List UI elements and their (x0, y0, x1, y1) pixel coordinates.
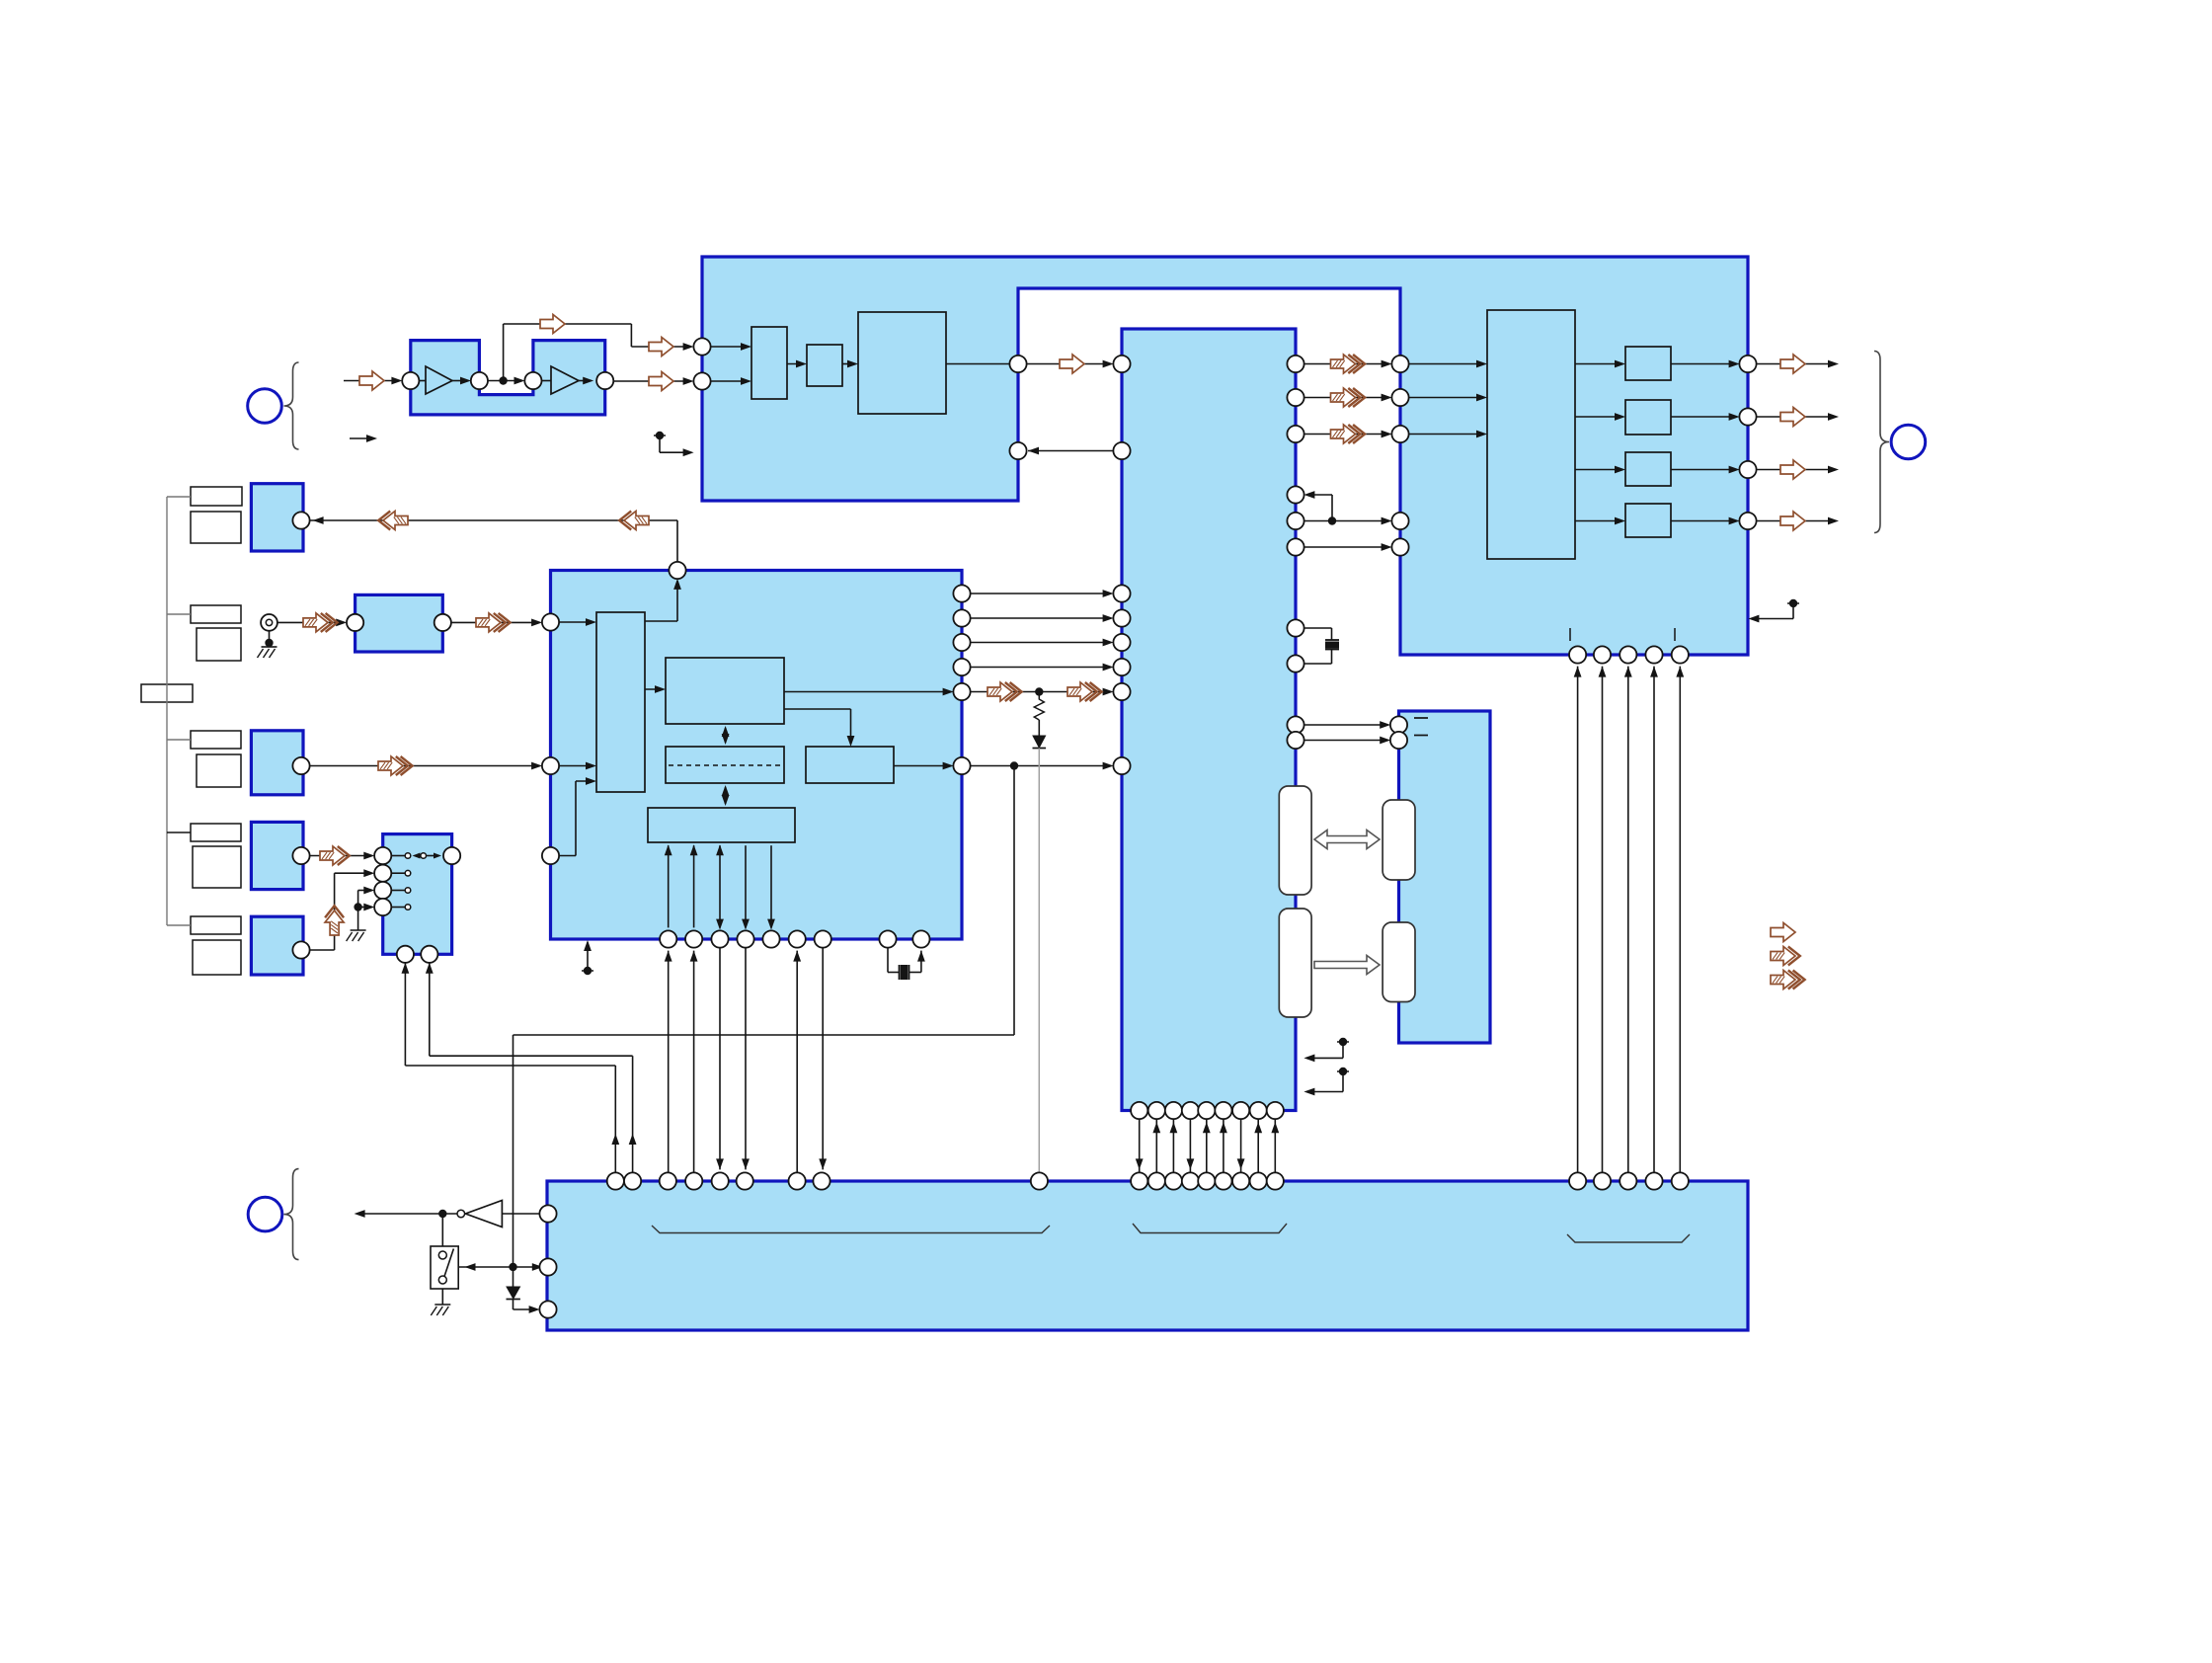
wire tap riser (503, 324, 505, 377)
crystal X1 (decoder) (1303, 627, 1331, 629)
connector circle CN1 (248, 389, 282, 424)
wire decoder to syscon (1206, 1119, 1208, 1173)
pin sensorB out (292, 757, 309, 774)
switch S1 contact top (438, 1251, 446, 1259)
label box on bus line (141, 684, 193, 702)
arrow stub below RF block (350, 437, 372, 439)
contact stub 3 (391, 907, 405, 909)
wire RF to DSP (613, 380, 690, 382)
switch contact o2 (421, 853, 427, 859)
pin DAC bottom 3 (1619, 646, 1636, 663)
ground switch block (351, 929, 366, 931)
wire servo-syscon b6 (796, 951, 798, 1173)
junction dot inverter (438, 1210, 446, 1218)
wire decoder to syscon (1139, 1119, 1141, 1173)
pin syscon top right group (1672, 1172, 1689, 1189)
wire A1 in (419, 380, 426, 382)
pin syscon top middle group (1198, 1172, 1215, 1189)
pin decoder L5 (1113, 634, 1130, 651)
sub-block coefficient RAM (666, 747, 784, 783)
block sensor B (251, 731, 303, 795)
switch contact wire (391, 855, 405, 857)
wire row 554 (1303, 546, 1388, 548)
pin decoder bottom (1250, 1102, 1267, 1119)
pin servo B4 (737, 930, 753, 947)
signal arrow sensorC (320, 846, 345, 865)
wire DAC in row3 (1408, 434, 1483, 436)
label box pair 4 lower (193, 846, 241, 888)
contact o 1 (405, 870, 411, 876)
label box pair 1 upper (191, 487, 242, 506)
wire servo-syscon b1 (668, 951, 670, 1173)
pin syscon top left group (1031, 1172, 1048, 1189)
wire inverter to S1 (441, 1218, 443, 1246)
switch S1 contact bottom (438, 1276, 446, 1284)
pin servo L2 (542, 757, 559, 774)
pin decoder bottom (1165, 1102, 1182, 1119)
signal arrow RF input (359, 371, 384, 390)
IC block digital signal processor (large top block with notch) (702, 257, 1748, 655)
wire audio output 1 (1756, 363, 1835, 365)
pin syscon top middle group (1182, 1172, 1199, 1189)
pin servo R3 (953, 634, 970, 651)
label box pair 4 upper (191, 824, 241, 841)
wire DSP in1 (710, 346, 748, 348)
signal arrow RF to DSP (649, 372, 673, 391)
pin DSP in2 (693, 372, 710, 389)
pin switch c2 (374, 882, 391, 899)
sub-block data processor (858, 312, 946, 414)
contact stub 2 (391, 890, 405, 892)
wire filter to servo (451, 621, 539, 623)
bus arrow single (1314, 956, 1380, 975)
pin audio out3 (1739, 461, 1756, 478)
signal arrow audio output 3 (1780, 460, 1805, 479)
sub-block LPF 2 (1625, 400, 1671, 435)
IC block servo processor (551, 571, 963, 940)
wire A2 out (579, 380, 591, 382)
wire filter to processor (842, 363, 855, 365)
pin syscon top middle group (1148, 1172, 1165, 1189)
wire servo DSP out (784, 691, 950, 693)
pin decoder R6 (1287, 538, 1303, 555)
wire LPF2 to pin (1671, 416, 1736, 418)
pin decoder R7 (1287, 619, 1303, 636)
wire servo DSP to driver (784, 708, 851, 710)
bus stub to pair 5 (167, 924, 191, 926)
jack symbol J1 (261, 614, 277, 631)
pin syscon top middle group (1250, 1172, 1267, 1189)
wire servo-syscon b4 (745, 947, 747, 1169)
wire servo error to decoder (970, 691, 1110, 693)
signal arrow audio output 1 (1780, 355, 1805, 373)
wire core to LPF2 (1575, 416, 1622, 418)
pin DAC in2 (1391, 389, 1408, 406)
switch S1 box (431, 1246, 458, 1289)
pin DAC bottom 1 (1569, 646, 1586, 663)
pin decoder bottom (1131, 1102, 1147, 1119)
wire A2 in (541, 380, 551, 382)
pin servo B3 (711, 930, 728, 947)
pin DAC bottom 5 (1672, 646, 1689, 663)
amplifier triangle A1 (426, 366, 452, 394)
pin syscon top right group (1594, 1172, 1611, 1189)
label box pair 1 lower (191, 512, 241, 543)
pin decoder R9 (1287, 716, 1303, 733)
pin DAC bottom 4 (1645, 646, 1662, 663)
bus servo DSP / RAM (725, 728, 727, 743)
label box pair 3 upper (191, 731, 241, 749)
wire switch to syscon 1 (404, 963, 406, 1066)
wire servo status to decoder (970, 765, 1110, 767)
wire jack down (269, 631, 271, 643)
switch arrow left (413, 853, 421, 859)
crystal X2 (servo) (887, 947, 889, 972)
wire decoder to syscon (1172, 1119, 1174, 1173)
wire demod to filter (787, 363, 804, 365)
tick mark DAC bottom 1 (1569, 628, 1571, 641)
block sensor D (251, 916, 303, 975)
buffer register A (decoder side) (1279, 786, 1311, 895)
wire DAC supply (1602, 667, 1604, 1173)
wire audio output 3 (1756, 469, 1835, 471)
sub-block driver interface (806, 747, 894, 783)
power tap DAC (1787, 602, 1799, 604)
pin DSP notch in (1009, 442, 1026, 459)
pin decoder R5 (1287, 513, 1303, 529)
pin DAC in4 (1391, 513, 1408, 529)
sub-block servo sequencer (648, 808, 795, 842)
pin decoder bottom (1232, 1102, 1249, 1119)
wire diode to syscon (513, 1300, 514, 1310)
sub-block LPF 1 (1625, 347, 1671, 380)
pin DSP in1 (693, 338, 710, 355)
switch contact o1 (405, 853, 411, 859)
sub-block EFM demodulator (751, 327, 787, 399)
wire decoder to syscon (1257, 1119, 1259, 1173)
sub-block LPF 4 (1625, 504, 1671, 537)
wire ground to c3 (358, 907, 372, 909)
pin decoder L4 (1113, 609, 1130, 626)
pin syscon top left group (685, 1172, 702, 1189)
signal arrow to sensorA 2 (624, 512, 649, 530)
pin decoder bottom (1215, 1102, 1231, 1119)
signal arrow decoder to DAC row1 (1331, 355, 1356, 373)
signal arrow audio output 4 (1780, 512, 1805, 530)
pin switch bottom 1 (397, 946, 414, 963)
bus tree line vertical (166, 497, 168, 925)
signal arrow sensorB (378, 756, 403, 775)
bus bracket syscon left (652, 1226, 1050, 1233)
signal arrow sensorD up (325, 911, 344, 935)
brace CN3 (1874, 352, 1889, 533)
label box pair 5 lower (193, 940, 241, 975)
wire sequencer io (719, 845, 721, 927)
junction dot servo error (1035, 687, 1043, 695)
wire DAC in row2 (1408, 397, 1483, 399)
contact o 2 (405, 888, 411, 894)
block switch unit (383, 834, 452, 955)
bus RAM / sequencer (725, 787, 727, 804)
pin syscon top left group (737, 1172, 753, 1189)
diode D2 (513, 1267, 514, 1287)
pin servo B7 (815, 930, 831, 947)
wire servo-syscon b7 (822, 947, 824, 1169)
buffer register D (memory side) (1382, 922, 1415, 1002)
wire servo-syscon b2 (693, 951, 695, 1173)
wire decoder to DAC row1 (1303, 363, 1388, 365)
switch wire out (427, 855, 436, 857)
wire DAC supply (1577, 667, 1579, 1173)
wire core to LPF3 (1575, 469, 1622, 471)
legend signal arrow double (1771, 947, 1795, 966)
label box pair 3 lower (197, 754, 241, 787)
wire servo-syscon b3 (719, 947, 721, 1169)
signal arrow EFM top (540, 315, 565, 334)
wire clock loop (1303, 520, 1388, 522)
pin servo top (669, 562, 685, 579)
label box pair 2 upper (191, 605, 241, 623)
pin servo L1 (542, 613, 559, 630)
wire selector to top pin (645, 620, 677, 622)
pin servo L3 (542, 847, 559, 864)
resistor R1 (1034, 695, 1044, 720)
power tap servo (582, 970, 593, 972)
wire sequencer io (745, 845, 747, 927)
contact o 3 (405, 905, 411, 911)
bus arrow bidirectional (1314, 831, 1380, 849)
bus stub to pair 1 (167, 496, 191, 498)
wire DAC supply (1627, 667, 1629, 1173)
switch S1 arm (444, 1249, 453, 1277)
wire decoder to DAC row3 (1303, 434, 1388, 436)
buffer register C (decoder side) (1279, 909, 1311, 1017)
dashed divider coefficient RAM (669, 764, 781, 766)
wire LPF1 to pin (1671, 363, 1736, 365)
wire ground to c2 (358, 890, 372, 892)
signal arrow to sensorA 1 (383, 512, 408, 530)
pin DAC in1 (1391, 356, 1408, 372)
bus stub to pair 3 (167, 739, 191, 741)
pin decoder R1 (1287, 356, 1303, 372)
pin decoder L8 (1113, 757, 1130, 774)
legend signal arrow single (1771, 923, 1795, 942)
bus stub to pair 4 (167, 831, 191, 833)
pin RF 2 (471, 372, 488, 389)
wire DSP in2 (710, 380, 748, 382)
wire decoder to memory 2 (1303, 740, 1387, 742)
wire status route to power switch (1013, 769, 1015, 1035)
block input filter (355, 594, 443, 652)
power tap into DSP (654, 435, 666, 436)
label box pair 2 lower (197, 628, 241, 661)
pin syscon top right group (1569, 1172, 1586, 1189)
brace CN1 (284, 362, 299, 449)
IC block system control (bottom) (547, 1181, 1748, 1330)
wire decoder to syscon (1155, 1119, 1157, 1173)
pin RF 3 (524, 372, 541, 389)
pin decoder R3 (1287, 426, 1303, 442)
pin memory in1 (1390, 716, 1407, 733)
wire A1 to pin (452, 380, 468, 382)
pin syscon top middle group (1232, 1172, 1249, 1189)
wire DSP to decoder (1026, 363, 1110, 365)
wire inverter output (357, 1213, 457, 1215)
pin syscon top left group (712, 1172, 729, 1189)
wire processor out (946, 363, 1010, 365)
pin servo B1 (660, 930, 676, 947)
wire decoder to memory 1 (1303, 724, 1387, 726)
legend signal arrow triple (1771, 971, 1795, 990)
pin servo R4 (953, 659, 970, 675)
pin decoder bottom (1267, 1102, 1284, 1119)
wire LPF4 to pin (1671, 520, 1736, 522)
pin decoder bottom (1148, 1102, 1165, 1119)
label box pair 5 upper (191, 916, 241, 934)
wire servo in2 (559, 765, 593, 767)
pin DAC bottom 2 (1594, 646, 1611, 663)
wire servo to decoder (970, 667, 1110, 669)
pin decoder R2 (1287, 389, 1303, 406)
wire DAC supply (1653, 667, 1655, 1173)
wire core to LPF4 (1575, 520, 1622, 522)
sub-block DAC core (1487, 310, 1575, 559)
wire sensorD to switch (309, 949, 334, 951)
wire RF input (344, 380, 399, 382)
wire sensorB to servo (309, 765, 539, 767)
pin servo B9 (912, 930, 929, 947)
junction dot ground riser (354, 903, 361, 911)
wire sequencer io (770, 845, 772, 927)
signal arrow decoder to DAC row2 (1331, 388, 1356, 407)
pin switch out (443, 847, 460, 864)
amplifier triangle A2 (551, 366, 579, 394)
brace CN2 (284, 1169, 299, 1260)
wire servo in3 (559, 855, 576, 857)
wire driver out (894, 765, 950, 767)
signal arrow servo error 1 (987, 682, 1012, 701)
signal arrow decoder to DAC row3 (1331, 425, 1356, 443)
pin sensorD out (292, 941, 309, 958)
pin decoder R4 (1287, 486, 1303, 503)
ground jack (262, 646, 277, 648)
pin switch bottom 2 (421, 946, 437, 963)
pin switch c3 (374, 899, 391, 915)
wire decoder to syscon (1240, 1119, 1242, 1173)
wire servo to decoder (970, 593, 1110, 594)
tick mark DAC bottom 2 (1674, 628, 1676, 641)
signal arrow EFM in (649, 338, 673, 356)
signal arrow servo error 2 (1067, 682, 1092, 701)
power tap memory 2 (1337, 1070, 1349, 1072)
wire sensorC to switch (309, 855, 371, 857)
led D1 (1038, 720, 1040, 736)
wire sensorA from decoder (309, 519, 677, 521)
sub-block filter (807, 345, 842, 386)
pin switch in (374, 847, 391, 864)
pin syscon top left group (607, 1172, 624, 1189)
wire clock branch (1331, 495, 1333, 521)
wire audio output 4 (1756, 520, 1835, 522)
IC block memory (1399, 711, 1491, 1043)
wire decoder to syscon (1189, 1119, 1191, 1173)
wire servo to decoder (970, 642, 1110, 644)
junction dot RF tap (499, 376, 507, 384)
pin syscon top left group (789, 1172, 806, 1189)
pin servo R6 (953, 757, 970, 774)
connector circle CN3 (audio out) (1891, 425, 1926, 459)
IC block RF amplifier (U-shaped) (411, 341, 605, 415)
pin DSP notch out (1009, 356, 1026, 372)
pin syscon top left group (660, 1172, 676, 1189)
pin servo B8 (879, 930, 896, 947)
connector circle CN2 (248, 1197, 282, 1231)
pin switch c1 (374, 865, 391, 882)
pin decoder L6 (1113, 659, 1130, 675)
wire servo to decoder (970, 617, 1110, 619)
wire tap drop to DSP (630, 324, 632, 347)
wire switch to syscon 2 (429, 963, 431, 1056)
label dash memory 2 (1414, 735, 1428, 737)
power tap memory 1 (1337, 1041, 1349, 1043)
signal arrow DSP to decoder (1060, 355, 1084, 373)
pin DAC in5 (1391, 538, 1408, 555)
pin syscon top left group (813, 1172, 829, 1189)
junction dot clock (1328, 516, 1336, 524)
pin audio out4 (1739, 513, 1756, 529)
block sensor C (251, 822, 303, 889)
wire sequencer io (668, 845, 670, 927)
label dash memory 1 (1414, 717, 1428, 719)
wire core to LPF1 (1575, 363, 1622, 365)
pin syscon top middle group (1215, 1172, 1231, 1189)
wire decoder to DAC row2 (1303, 397, 1388, 399)
bus bracket syscon right (1567, 1234, 1690, 1242)
block sensor A (251, 484, 303, 551)
sub-block servo input selector (596, 612, 645, 792)
pin servo R5 (953, 683, 970, 700)
wire servo in1 (559, 621, 593, 623)
inverter driver (465, 1201, 502, 1227)
pin DAC in3 (1391, 426, 1408, 442)
pin servo B5 (762, 930, 779, 947)
pin servo R2 (953, 609, 970, 626)
signal arrow audio output 2 (1780, 408, 1805, 427)
ground S1 (434, 1304, 450, 1306)
wire S1 ground (441, 1289, 443, 1305)
wire led to syscon (gray) (1038, 749, 1040, 1173)
pin audio out2 (1739, 408, 1756, 425)
pin syscon top left group (624, 1172, 641, 1189)
pin decoder L3 (1113, 585, 1130, 601)
pin syscon top middle group (1131, 1172, 1147, 1189)
pin decoder L1 (1113, 356, 1130, 372)
pin RF 1 (402, 372, 419, 389)
wire ground riser (357, 891, 359, 931)
pin RF 4 (596, 372, 613, 389)
pin decoder bottom (1182, 1102, 1199, 1119)
pin syscon L3 (539, 1301, 556, 1317)
pin servo B2 (685, 930, 702, 947)
IC block central decoder (tall) (1122, 329, 1296, 1111)
bus stub to pair 2 (167, 613, 191, 615)
junction dot jack (265, 639, 273, 647)
pin sensorA out (292, 512, 309, 528)
sub-block servo DSP (666, 658, 784, 724)
junction dot servo status (1010, 761, 1018, 769)
wire inverter to syscon (502, 1213, 539, 1215)
wire S1 row (458, 1266, 539, 1268)
